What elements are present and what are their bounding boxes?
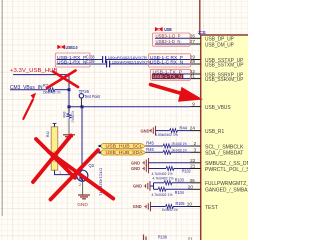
wire RX_P right bbox=[106, 59, 191, 61]
wire RX_N left bbox=[57, 63, 107, 65]
svg-text:24: 24 bbox=[190, 126, 196, 131]
ground PWRCTL bbox=[131, 164, 149, 174]
svg-text:USB-1-TX_N: USB-1-TX_N bbox=[153, 74, 183, 79]
svg-text:USB_VBUS: USB_VBUS bbox=[205, 105, 231, 111]
wire PWRCTL b bbox=[174, 168, 191, 170]
label R102 value bbox=[152, 171, 173, 176]
wire USB_DP bbox=[155, 37, 191, 39]
svg-text:FULLPWRMGMTZ_/_: FULLPWRMGMTZ_/_ bbox=[205, 181, 248, 187]
wire GANGED a bbox=[154, 188, 159, 190]
wire SMBUSZ bbox=[149, 162, 191, 164]
label R44 value bbox=[155, 132, 178, 137]
wire +3.3V vertical bbox=[68, 75, 70, 107]
resistor R105 bbox=[166, 201, 186, 208]
resistor R42 body bbox=[51, 123, 58, 170]
label R46 value bbox=[171, 148, 187, 153]
svg-text:GND: GND bbox=[133, 204, 143, 209]
resistor R7 bbox=[43, 83, 55, 92]
test point TP26 bbox=[79, 89, 101, 99]
wire USB_DM bbox=[155, 43, 191, 45]
wire TX_P bbox=[152, 73, 191, 75]
svg-text:1R-0402 1%: 1R-0402 1% bbox=[171, 148, 187, 153]
svg-text:USB3-1-D_N: USB3-1-D_N bbox=[156, 39, 181, 44]
label R45 value bbox=[171, 141, 187, 146]
annotation arrow at CM3_VBus bbox=[23, 93, 36, 119]
svg-text:USB_R1: USB_R1 bbox=[205, 129, 224, 135]
power net +3.3V_USB_HUB bbox=[10, 68, 58, 74]
svg-text:C139: C139 bbox=[86, 59, 95, 64]
wire +3.3V horizontal bbox=[13, 74, 69, 76]
wire emitter bbox=[79, 181, 83, 194]
svg-text:2: 2 bbox=[79, 183, 81, 187]
svg-text:3: 3 bbox=[194, 147, 197, 152]
pin 2 SCL_/_SMBCLK bbox=[191, 141, 244, 150]
annotation X over 3.3V corner bbox=[47, 71, 78, 89]
resistor R102 bbox=[166, 167, 191, 174]
wire R44 b bbox=[177, 130, 191, 132]
resistor R45 bbox=[146, 141, 171, 148]
svg-text:TEST: TEST bbox=[205, 205, 219, 211]
net label USB3-1-D_P bbox=[156, 34, 181, 39]
svg-text:21: 21 bbox=[188, 236, 193, 240]
blanket box D pair bbox=[153, 33, 191, 46]
svg-text:R102: R102 bbox=[182, 168, 191, 173]
svg-text:22: 22 bbox=[190, 158, 196, 163]
pin 20 GANGED_/_SMBA2_ bbox=[188, 184, 253, 193]
svg-text:27: 27 bbox=[190, 39, 196, 44]
wire TX_N bbox=[152, 78, 191, 80]
annotation arrow to USB_VBUS bbox=[151, 85, 204, 102]
svg-text:USB_HUB_SDA: USB_HUB_SDA bbox=[106, 150, 144, 155]
net label USB3-1-D_N bbox=[156, 39, 181, 44]
svg-text:4.7k/0402 1%: 4.7k/0402 1% bbox=[152, 192, 173, 197]
svg-text:R104: R104 bbox=[175, 190, 185, 195]
wire RX_P left bbox=[57, 59, 103, 61]
net label USB-1-C RX_N bbox=[150, 59, 183, 64]
svg-text:R43: R43 bbox=[61, 111, 66, 118]
svg-text:GND: GND bbox=[131, 166, 141, 171]
net label CM3_VBus_IN bbox=[10, 85, 43, 91]
svg-text:R103: R103 bbox=[175, 177, 185, 182]
resistor R46 bbox=[146, 147, 171, 154]
wire R44 a bbox=[156, 130, 170, 132]
svg-text:R45: R45 bbox=[146, 141, 154, 146]
wire collector bbox=[81, 107, 83, 168]
ground FULLPWR bbox=[133, 181, 150, 191]
wire RX_N right bbox=[110, 63, 191, 65]
blanket box C RX bbox=[149, 54, 191, 67]
svg-text:USB_SSTXM_UP: USB_SSTXM_UP bbox=[205, 62, 244, 68]
svg-text:150k/0402 1%: 150k/0402 1% bbox=[43, 90, 61, 95]
wire CM3_VBus bbox=[10, 89, 47, 91]
wire SCL2 bbox=[171, 145, 191, 147]
svg-text:1R-0402 1%: 1R-0402 1% bbox=[171, 141, 187, 146]
annotation X over R42 bbox=[33, 136, 75, 183]
svg-text:USB_DM_UP: USB_DM_UP bbox=[205, 42, 234, 48]
svg-text:TP26: TP26 bbox=[79, 89, 90, 94]
svg-text:R106: R106 bbox=[158, 235, 168, 240]
wire FULLPWR a bbox=[154, 182, 165, 184]
wire SCL bbox=[146, 145, 164, 147]
svg-text:R105: R105 bbox=[176, 201, 186, 206]
pin 22 SMBUSZ_/_SS_DNZ2 bbox=[190, 158, 256, 167]
pin 31 USB_SSRXM_UP bbox=[190, 74, 244, 83]
pin 3 SDA_/_SMBDAT bbox=[191, 147, 245, 156]
ground bottom partial bbox=[144, 235, 147, 240]
svg-text:10: 10 bbox=[187, 202, 193, 207]
svg-text:9: 9 bbox=[192, 102, 195, 107]
svg-text:GND: GND bbox=[77, 202, 88, 208]
svg-text:GND: GND bbox=[141, 128, 151, 133]
svg-text:2.7k/0402 1%: 2.7k/0402 1% bbox=[71, 111, 75, 123]
pin 29 USB_SSTXP_UP bbox=[190, 55, 244, 64]
net flag USB_HUB_SDA bbox=[99, 150, 146, 155]
pin 26 USB_DP_UP bbox=[190, 33, 235, 42]
blanket box RX left bbox=[55, 53, 90, 67]
wire gnd fork bbox=[150, 183, 154, 190]
wire PWRCTL a bbox=[149, 168, 167, 170]
svg-text:Q2: Q2 bbox=[89, 163, 95, 168]
label R105 value bbox=[162, 207, 178, 212]
net label USB-1-C RX_P bbox=[150, 55, 183, 60]
svg-text:21: 21 bbox=[190, 164, 196, 169]
svg-text:9.53k/0402 1%: 9.53k/0402 1% bbox=[155, 132, 178, 137]
svg-text:Test Point: Test Point bbox=[84, 94, 101, 99]
wire TP26 down bbox=[80, 98, 82, 107]
svg-text:1: 1 bbox=[59, 170, 61, 174]
pin 32 USB_SSRXP_UP bbox=[190, 69, 244, 78]
svg-text:1k/0402 1%: 1k/0402 1% bbox=[162, 207, 178, 212]
label R106 bbox=[158, 235, 193, 240]
IC designator JC31 bbox=[198, 30, 206, 36]
net label USB-1-RX_P bbox=[57, 55, 87, 60]
wire R43 bottom bbox=[68, 118, 70, 134]
pin 9 USB_VBUS bbox=[191, 102, 232, 111]
svg-text:R44: R44 bbox=[180, 126, 188, 131]
pin 10 TEST bbox=[187, 202, 219, 211]
svg-text:SDA_/_SMBDAT: SDA_/_SMBDAT bbox=[205, 151, 244, 157]
svg-text:GND: GND bbox=[131, 160, 141, 165]
resistor R103 bbox=[164, 177, 184, 184]
wire R7 to junction bbox=[55, 88, 71, 91]
wire GANGED b bbox=[166, 188, 191, 190]
svg-text:USB: USB bbox=[164, 27, 172, 32]
net class directive USB bbox=[155, 27, 172, 32]
wire R43 top bbox=[68, 107, 70, 113]
pin 27 USB_DM_UP bbox=[190, 39, 235, 48]
svg-text:36: 36 bbox=[190, 178, 196, 183]
svg-text:20: 20 bbox=[188, 184, 194, 189]
label Q2 part bbox=[99, 168, 104, 197]
label R7 value bbox=[43, 90, 61, 95]
label C138 value bbox=[108, 55, 147, 60]
svg-text:USB-1-RX_N: USB-1-RX_N bbox=[57, 59, 87, 64]
svg-text:R46: R46 bbox=[146, 147, 154, 152]
net label USB-1-RX_N bbox=[57, 59, 87, 64]
svg-text:R42: R42 bbox=[45, 130, 50, 137]
wire SDA bbox=[146, 151, 164, 153]
pin 28 USB_SSTXM_UP bbox=[190, 59, 244, 68]
capacitor C139 bbox=[86, 59, 110, 68]
wire TEST a bbox=[151, 206, 166, 208]
label R103 value bbox=[153, 176, 174, 181]
label R104 value bbox=[152, 192, 173, 197]
resistor R43 bbox=[61, 111, 71, 118]
svg-text:2: 2 bbox=[194, 141, 197, 146]
svg-text:USB_HUB_SCL: USB_HUB_SCL bbox=[106, 144, 143, 149]
ground SMBUSZ bbox=[131, 158, 149, 168]
svg-text:USB3-1-D_P: USB3-1-D_P bbox=[156, 34, 181, 39]
blanket box TX bbox=[151, 69, 191, 80]
svg-text:USB_SSRXM_UP: USB_SSRXM_UP bbox=[205, 77, 244, 83]
wire VBUS bus bbox=[68, 105, 191, 108]
ground TEST bbox=[133, 202, 151, 212]
net class directive USB3.0 bbox=[58, 45, 78, 50]
net flag USB_HUB_SCL bbox=[99, 144, 146, 149]
IC JC31 body bbox=[201, 35, 250, 240]
net label USB-1-TX_N highlighted bbox=[152, 74, 184, 79]
capacitor C138 bbox=[86, 54, 106, 63]
wire TEST b bbox=[173, 206, 191, 208]
svg-text:JC31: JC31 bbox=[198, 30, 206, 36]
net label USB-1-TX_P bbox=[153, 69, 183, 74]
svg-text:GND: GND bbox=[133, 184, 143, 189]
wire R42 to Q2 base bbox=[55, 170, 76, 174]
label C139 value bbox=[112, 60, 151, 65]
svg-text:USB-1-C RX_N: USB-1-C RX_N bbox=[150, 59, 183, 64]
sheet symbol border above IC bbox=[199, 0, 201, 35]
svg-text:26: 26 bbox=[190, 33, 196, 38]
wire SDA2 bbox=[171, 151, 191, 153]
resistor R104 bbox=[158, 187, 184, 195]
ground under R43 bbox=[63, 135, 75, 139]
resistor R44 bbox=[170, 126, 188, 133]
svg-text:4.7k/0402 1%: 4.7k/0402 1% bbox=[153, 176, 174, 181]
wire FULLPWR b bbox=[172, 182, 191, 184]
svg-text:GANGED_/_SMBA2_: GANGED_/_SMBA2_ bbox=[205, 188, 248, 194]
pin 21 PWRCTL_POL_/_SS bbox=[190, 164, 253, 173]
label R43 value bbox=[71, 111, 75, 123]
ground under Q2 bbox=[77, 195, 90, 208]
svg-text:+3.3V_USB_HUB: +3.3V_USB_HUB bbox=[10, 68, 58, 74]
svg-text:SCL_/_SMBCLK: SCL_/_SMBCLK bbox=[205, 144, 244, 150]
pin 24 USB_R1 bbox=[190, 126, 225, 135]
label R42 value bbox=[53, 151, 57, 162]
svg-text:PWRCTL_POL_/_SS: PWRCTL_POL_/_SS bbox=[205, 167, 248, 173]
label R42 name bbox=[45, 130, 50, 137]
transistor Q2 bbox=[77, 163, 95, 182]
pin 36 FULLPWRMGMTZ_/_ bbox=[190, 178, 254, 187]
ground R44 bbox=[141, 126, 156, 136]
annotation X over Q2 bbox=[49, 150, 114, 199]
svg-text:USB3.0: USB3.0 bbox=[66, 45, 78, 50]
